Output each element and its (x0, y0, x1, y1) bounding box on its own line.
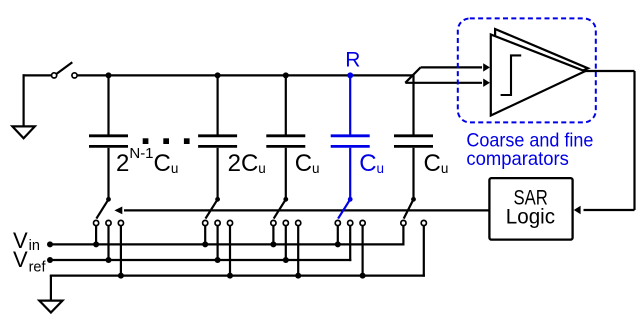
capacitor Cu (blue, node R) (331, 75, 370, 199)
node R (blue) (347, 72, 353, 78)
capacitor Cu (fifth) (394, 74, 433, 199)
svg-text:Logic: Logic (506, 206, 555, 229)
op-amp comparator (front triangle) (491, 35, 585, 116)
switch S1 (sampling switch) (52, 73, 78, 78)
svg-text:ref: ref (29, 259, 47, 275)
dots (ellipsis) (143, 138, 149, 144)
node dots on Vref rail (47, 257, 53, 263)
ground (12, 74, 34, 138)
dashed box around comparators (458, 18, 596, 122)
arrow into SAR logic (574, 206, 581, 215)
node top plate rail junction dots (106, 72, 112, 78)
switch SW3 (283, 197, 288, 202)
svg-text:comparators: comparators (466, 148, 569, 170)
capacitor 2^(N-1)Cu (89, 75, 128, 199)
wire (23, 74, 52, 76)
switch SW2 (215, 197, 220, 202)
arrow to switches (114, 207, 122, 215)
capacitor 2Cu (198, 75, 237, 199)
op-amp comparator (back triangle) (495, 29, 588, 110)
svg-text:V: V (13, 247, 28, 272)
svg-text:in: in (29, 238, 40, 254)
wire SAR feedback to switches (124, 209, 489, 211)
wire Vin rail (50, 243, 405, 245)
SAR logic box U2 (489, 178, 572, 240)
wire Vref rail (50, 259, 351, 261)
switch SW5 (411, 197, 416, 202)
ground (bottom) (39, 301, 62, 313)
comparator hysteresis symbol (501, 55, 522, 95)
capacitor Cu (third) (266, 75, 305, 199)
wire comparator output (584, 71, 635, 210)
wire bottom ground rail (50, 276, 425, 301)
switch SW4 (blue arm) (348, 197, 353, 202)
node dots on Vin rail (47, 241, 53, 247)
node dots on ground rail (118, 273, 124, 279)
arrow into comparator (top input) (483, 63, 490, 71)
arrow into comparator (bottom input) (483, 79, 490, 87)
switch SW1 (106, 197, 111, 202)
svg-text:R: R (345, 49, 360, 72)
wire comparator input fork (405, 67, 482, 82)
wire top rail (77, 74, 413, 76)
